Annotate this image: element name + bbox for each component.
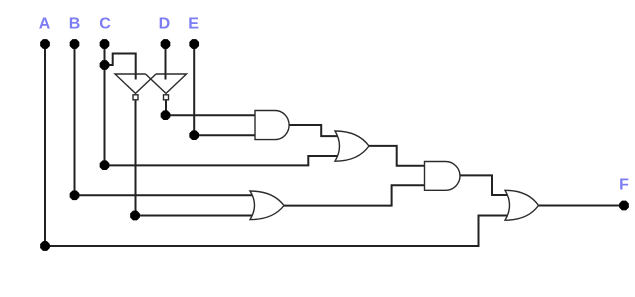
svg-text:D: D [159,16,171,33]
wire NOT2 output down to AND1 top input [166,100,256,115]
inverter NOT1 bubble square [133,95,138,100]
svg-text:C: C [99,16,111,33]
svg-text:B: B [69,16,81,33]
wire NOT1 output down to OR2 lower input [136,100,256,216]
wire OR1 output to AND2 top input [369,146,426,166]
node dot input C [100,39,110,49]
wire D: vertical drop to NOT2 input [165,44,167,80]
node dot B joint [70,190,80,200]
wire OR2 output to AND2 lower input [284,185,426,205]
OR gate OR1 [335,131,369,161]
node dot NOT2 output joint [161,110,171,120]
inverter NOT1 triangle [115,74,156,93]
wire E: vertical drop and run to AND1 lower input [194,44,256,135]
OR gate OR2 [250,191,284,220]
AND gate AND2 [425,162,461,191]
inverter NOT2 triangle [146,74,187,93]
OR gate OR3 [505,190,539,220]
wire B: vertical drop and run to OR2 top input [75,44,256,195]
node dot NOT1 output joint [130,211,140,221]
node dot input B [70,39,80,49]
svg-text:A: A [39,16,51,33]
node dot input A [40,39,50,49]
node dot input E [189,39,199,49]
wire OR3 output to terminal F [539,205,625,207]
node dot C branch junction [100,60,110,70]
node dot output F [619,201,629,211]
svg-text:F: F [619,177,629,194]
wire AND1 output to OR1 top input [289,125,340,136]
wire C: vertical drop, run right, riser to OR1 lower input [105,44,341,165]
wire C branch to NOT1 input [105,54,136,80]
AND gate AND1 [255,111,289,140]
wire AND2 output to OR3 top input [460,175,510,195]
svg-text:E: E [188,16,199,33]
node dot C corner joint [100,160,110,170]
node dot input D [161,39,171,49]
inverter NOT2 bubble square [164,95,169,100]
node dot E joint [189,130,199,140]
wire A: vertical drop, bottom run, riser to OR3 lower input [45,44,510,246]
node dot A joint [40,241,50,251]
